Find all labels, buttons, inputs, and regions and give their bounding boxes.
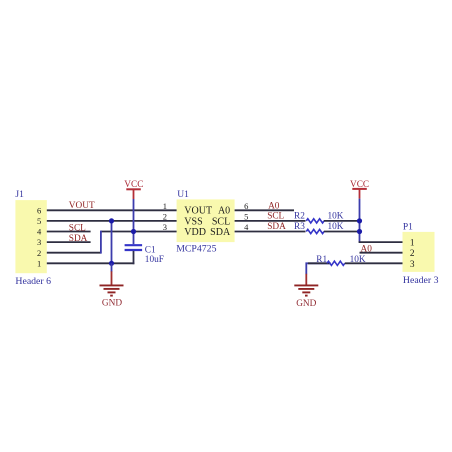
svg-text:A0: A0 [218,206,230,217]
wire J1.6 to U1.1 [47,209,177,211]
svg-text:MCP4725: MCP4725 [176,243,216,254]
power VCC right [350,180,369,199]
svg-text:10K: 10K [328,222,344,232]
svg-text:1: 1 [410,239,415,249]
svg-text:J1: J1 [15,190,24,200]
svg-text:3: 3 [410,260,415,270]
svg-text:GND: GND [102,299,122,309]
svg-text:R3: R3 [294,222,305,232]
resistor R1 [327,261,345,265]
wire riser J1.2 to VDD row [100,231,102,254]
svg-text:P1: P1 [403,223,413,233]
wire SCL stub from J1.4 [47,231,91,233]
svg-text:VDD: VDD [184,227,206,238]
svg-text:4: 4 [37,227,42,237]
svg-text:Header 6: Header 6 [15,276,51,287]
connector P1 body [403,232,435,272]
power VCC left [124,180,143,199]
junction dot VCC/VDD row [131,229,136,234]
ic U1 body [177,199,235,242]
svg-text:R1: R1 [316,255,327,265]
resistor R3 [306,229,324,233]
connector J1 body [15,200,46,273]
svg-text:VSS: VSS [184,216,202,227]
svg-text:VOUT: VOUT [184,206,212,217]
svg-text:GND: GND [296,299,316,309]
svg-text:R2: R2 [294,212,305,222]
junction dot R2/VCC [357,218,362,223]
capacitor C1 [125,245,143,264]
wire from J1.1 [47,262,135,264]
wire R1 to P1.3 [345,262,403,264]
wire R2 to VCC vertical [324,220,360,222]
svg-text:5: 5 [244,211,248,221]
svg-text:SCL: SCL [212,216,230,227]
wire ground net vertical [111,221,113,263]
svg-text:3: 3 [37,237,41,247]
svg-text:4: 4 [244,222,249,232]
wire P1.2 stub [360,252,403,254]
wire VCC left stem to C1 [133,199,135,244]
junction dot at J1.5 row [109,218,114,223]
svg-text:SDA: SDA [210,227,231,238]
svg-text:10uF: 10uF [145,255,164,265]
svg-text:2: 2 [163,211,167,221]
svg-text:Header 3: Header 3 [403,275,439,286]
wire VCC right vertical [359,199,361,243]
wire U1.5 to R2 [235,220,306,222]
wire left part of R1 row [308,262,331,264]
svg-text:3: 3 [163,222,167,232]
svg-text:A0: A0 [268,201,280,211]
wire SDA stub from J1.3 [47,241,91,243]
svg-text:U1: U1 [177,190,189,200]
svg-text:5: 5 [37,216,41,226]
wire GND to R1 [306,263,330,274]
ground GND right [294,274,318,309]
junction dot at J1.1 row [109,261,114,266]
svg-text:6: 6 [244,201,248,211]
wire VDD row to U1.3 [101,231,177,233]
svg-text:2: 2 [410,249,415,259]
svg-text:VOUT: VOUT [69,201,95,211]
svg-text:6: 6 [37,205,41,215]
svg-text:SCL: SCL [69,224,86,234]
resistor R2 [306,219,324,223]
svg-text:2: 2 [37,248,41,258]
wire U1.4 to R3 [235,231,306,233]
svg-text:1: 1 [37,258,41,268]
svg-text:A0: A0 [361,245,373,255]
wire U1.6 stub [235,209,294,211]
svg-text:SDA: SDA [267,222,286,232]
svg-text:1: 1 [163,201,167,211]
junction dot R3/VCC [357,229,362,234]
wire from J1.2 [47,252,101,254]
wire R3 to VCC vertical [324,231,360,233]
svg-text:SDA: SDA [69,234,88,244]
wire J1.5 to U1.2 [47,220,177,222]
svg-text:SCL: SCL [267,212,284,222]
ground GND left [100,263,124,308]
